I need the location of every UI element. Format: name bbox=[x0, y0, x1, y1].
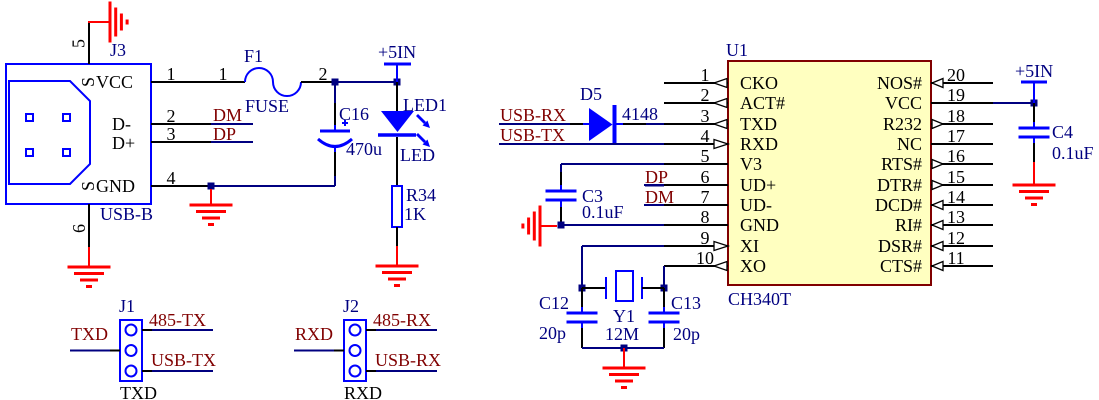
svg-text:USB-TX: USB-TX bbox=[151, 350, 216, 370]
svg-text:TXD: TXD bbox=[71, 324, 108, 344]
svg-text:C4: C4 bbox=[1052, 122, 1073, 142]
svg-text:U1: U1 bbox=[726, 40, 748, 60]
svg-text:LED: LED bbox=[400, 145, 435, 165]
svg-text:RXD: RXD bbox=[740, 134, 778, 154]
svg-text:CTS#: CTS# bbox=[880, 256, 922, 276]
svg-text:DP: DP bbox=[213, 124, 236, 144]
svg-text:0.1uF: 0.1uF bbox=[582, 202, 624, 222]
svg-text:DM: DM bbox=[213, 105, 242, 125]
svg-text:1K: 1K bbox=[404, 204, 426, 224]
svg-text:2: 2 bbox=[167, 106, 176, 126]
svg-text:J2: J2 bbox=[343, 296, 359, 316]
svg-text:4: 4 bbox=[167, 168, 176, 188]
svg-text:GND: GND bbox=[740, 215, 779, 235]
svg-text:USB-B: USB-B bbox=[100, 204, 153, 224]
svg-text:20p: 20p bbox=[539, 323, 566, 343]
svg-text:DCD#: DCD# bbox=[875, 195, 922, 215]
svg-text:C13: C13 bbox=[671, 293, 701, 313]
svg-text:UD-: UD- bbox=[740, 195, 772, 215]
svg-text:TXD: TXD bbox=[740, 114, 777, 134]
svg-text:D-: D- bbox=[112, 114, 131, 134]
svg-text:RXD: RXD bbox=[344, 383, 382, 400]
svg-text:VCC: VCC bbox=[885, 93, 922, 113]
svg-text:TXD: TXD bbox=[120, 383, 157, 400]
svg-text:1: 1 bbox=[219, 64, 228, 84]
svg-text:DSR#: DSR# bbox=[878, 236, 922, 256]
svg-text:J3: J3 bbox=[110, 40, 126, 60]
svg-text:F1: F1 bbox=[244, 46, 263, 66]
svg-text:RXD: RXD bbox=[295, 324, 333, 344]
svg-text:C16: C16 bbox=[339, 104, 369, 124]
svg-text:UD+: UD+ bbox=[740, 175, 776, 195]
svg-text:RTS#: RTS# bbox=[881, 154, 922, 174]
svg-text:C12: C12 bbox=[539, 293, 569, 313]
svg-text:6: 6 bbox=[69, 224, 89, 233]
svg-text:3: 3 bbox=[167, 124, 176, 144]
svg-text:1: 1 bbox=[167, 64, 176, 84]
svg-text:XO: XO bbox=[740, 256, 766, 276]
svg-text:USB-RX: USB-RX bbox=[500, 105, 566, 125]
svg-text:J1: J1 bbox=[119, 296, 135, 316]
svg-text:LED1: LED1 bbox=[403, 95, 447, 115]
svg-text:D5: D5 bbox=[580, 84, 602, 104]
svg-text:S: S bbox=[78, 77, 98, 87]
svg-text:NC: NC bbox=[897, 134, 922, 154]
svg-text:VCC: VCC bbox=[96, 72, 133, 92]
svg-text:Y1: Y1 bbox=[613, 306, 635, 326]
svg-text:470u: 470u bbox=[346, 139, 382, 159]
svg-text:USB-TX: USB-TX bbox=[500, 125, 565, 145]
svg-text:FUSE: FUSE bbox=[245, 96, 289, 116]
svg-text:RI#: RI# bbox=[895, 215, 922, 235]
svg-text:+5IN: +5IN bbox=[378, 42, 416, 62]
svg-text:S: S bbox=[78, 181, 98, 191]
svg-text:20p: 20p bbox=[673, 324, 700, 344]
svg-text:ACT#: ACT# bbox=[740, 93, 785, 113]
svg-text:4148: 4148 bbox=[622, 104, 658, 124]
svg-text:+5IN: +5IN bbox=[1015, 61, 1053, 81]
svg-text:485-TX: 485-TX bbox=[149, 310, 206, 330]
svg-text:5: 5 bbox=[69, 39, 89, 48]
svg-text:NOS#: NOS# bbox=[877, 73, 922, 93]
svg-text:DTR#: DTR# bbox=[877, 175, 922, 195]
svg-text:12M: 12M bbox=[605, 324, 639, 344]
svg-text:GND: GND bbox=[96, 176, 135, 196]
svg-text:CKO: CKO bbox=[740, 73, 778, 93]
svg-text:V3: V3 bbox=[740, 154, 762, 174]
svg-text:XI: XI bbox=[740, 236, 759, 256]
svg-text:D+: D+ bbox=[112, 133, 135, 153]
svg-text:0.1uF: 0.1uF bbox=[1052, 143, 1094, 163]
svg-text:R34: R34 bbox=[406, 185, 436, 205]
svg-text:485-RX: 485-RX bbox=[373, 310, 431, 330]
svg-text:USB-RX: USB-RX bbox=[375, 350, 441, 370]
svg-text:CH340T: CH340T bbox=[728, 289, 791, 309]
svg-text:R232: R232 bbox=[883, 114, 922, 134]
